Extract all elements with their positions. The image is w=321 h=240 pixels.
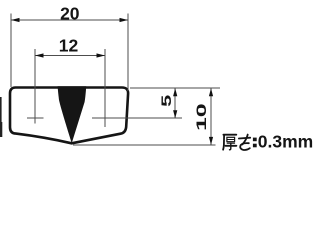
svg-text:20: 20 — [60, 3, 80, 23]
bottom extension line (apex to right, y=144.5) — [73, 144, 216, 146]
12 dim arrow left — [35, 53, 44, 57]
hiragana さ drawn strokes — [239, 135, 250, 150]
V-notch filled triangle — [58, 86, 87, 143]
10 dim arrow bottom — [209, 137, 213, 145]
5 dimension line — [174, 88, 176, 118]
svg-text:5: 5 — [158, 95, 174, 107]
20 dim arrow left — [11, 18, 20, 22]
12 dimension line — [35, 55, 105, 57]
colon dots — [253, 138, 257, 142]
left edge scan artifact — [0, 97, 2, 137]
left crosshair horizontal arm — [27, 117, 44, 119]
extension line left of 12 dim (x=35) through part to crosshair — [34, 49, 36, 124]
10 dim arrow top — [209, 88, 213, 96]
svg-text:0.3mm: 0.3mm — [258, 132, 313, 152]
12 dim arrow right — [97, 53, 106, 57]
svg-text:10: 10 — [194, 103, 209, 131]
extension line right of 20 dim (x=128) — [127, 14, 129, 92]
5 dim arrow bottom — [173, 110, 177, 118]
top extension line (part top edge to right, y=87.7) — [130, 87, 220, 89]
svg-text:12: 12 — [59, 36, 79, 56]
extension line left of 20 dim (x=11) — [10, 14, 12, 88]
kanji 厚 (atsu) drawn strokes — [223, 135, 236, 150]
20 dim arrow right — [120, 18, 129, 22]
5 dim arrow top — [173, 88, 177, 96]
right crosshair / 5-dim lower extension line — [92, 117, 182, 119]
20 dimension line — [11, 19, 128, 21]
10 dimension line — [210, 88, 212, 144]
part outline (pick blade body) — [10, 88, 128, 144]
extension line right of 12 dim (x=105) through part to crosshair — [104, 49, 106, 127]
